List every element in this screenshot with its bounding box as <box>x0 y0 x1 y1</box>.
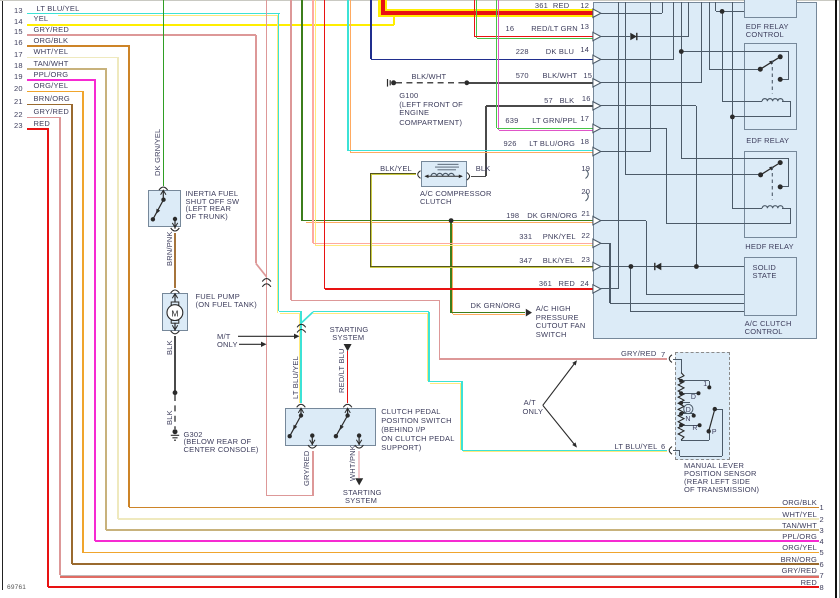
rotated label BRN/PNK <box>165 231 174 266</box>
wire 13 double break symbol <box>297 324 306 327</box>
wire 23 RED horizontal bottom <box>48 586 819 588</box>
wire 15 GRY/RED : pin label row <box>14 28 23 36</box>
inner wire: pin 13 row with diode to riser x=688.8 <box>597 36 630 37</box>
wire 16 ORG/BLK horizontal top <box>27 45 130 47</box>
rotated label BLK lower <box>165 410 174 425</box>
ground G302 symbol <box>173 429 178 434</box>
diode on pin 23 row (pointing left) <box>661 266 744 267</box>
wire 20 ORG/YEL horizontal top <box>27 91 84 93</box>
wire DK GRN/YEL vertical from top x=163.3 <box>163 0 165 186</box>
label HEDF RELAY <box>745 243 794 251</box>
inner wire: riser x=732.4 to HEDF coil <box>732 2 733 208</box>
inner wire: riser x=715.5 to EDF relay control box <box>715 2 716 11</box>
second GRY/RED vertical from top x=266.6 <box>266 0 268 496</box>
connector pin 18 symbol <box>593 147 601 155</box>
A/C clutch double arrow <box>426 175 462 177</box>
label STARTING SYSTEM upper <box>330 326 369 334</box>
wire 13 riser down to clutch pedal switch <box>299 314 300 403</box>
wire 18 TAN/WHT horizontal bottom <box>106 529 818 531</box>
inner wire: riser x=625.3 to HEDF common <box>625 2 626 175</box>
wire 21 BRN/ORG : pin label row <box>14 98 23 106</box>
inner wire: pin 16 drop to pin 23 row x=696.4 <box>597 105 696 106</box>
BLK/YEL vertical x=370.4 <box>370 174 371 267</box>
wire 18 TAN/WHT vertical left side <box>105 69 107 530</box>
diode on pin 13 row (pointing right) <box>637 36 689 37</box>
wire 17 WHT/YEL horizontal top <box>27 57 119 59</box>
arrowhead to A/C high pressure cutout fan switch <box>526 309 532 317</box>
connector pin 22 symbol <box>593 239 601 247</box>
solid state box <box>744 257 797 316</box>
MLPS position letters <box>703 381 707 388</box>
EDF relay box <box>744 43 797 130</box>
label 331 PNK/YEL pin 22 <box>519 233 532 241</box>
circuit 198 DK GRN/ORG vertical from top x=302 <box>301 0 303 221</box>
label STARTING SYSTEM lower <box>343 489 382 497</box>
ground G100 symbol <box>387 79 389 87</box>
HEDF coil return loop <box>782 208 790 209</box>
bottom right label PPL/ORG pin 4 <box>782 533 817 541</box>
svg-text:M: M <box>171 308 178 318</box>
connector pin 20 arrow <box>581 188 590 196</box>
label 639 LT GRN/PPL pin 17 <box>505 117 518 125</box>
inner wire: pin 22 to solid state <box>597 243 610 244</box>
inner wire: pin 24 riser x=618.6 <box>597 288 619 289</box>
wire 13 MLPS branch: drop x=461.9 <box>460 383 461 450</box>
HEDF relay switch contacts and coil <box>758 172 763 177</box>
clutch pedal position switch box <box>285 408 375 446</box>
wire 13 MLPS branch: jog right y=381.5 <box>429 381 463 383</box>
MLPS resistor ladder zigzag <box>678 373 684 441</box>
wire 20 ORG/YEL : pin label row <box>14 85 23 93</box>
label 361 RED pin 12 <box>535 2 548 10</box>
MLPS selector arm <box>713 407 717 411</box>
wire 361? no: circuit 16 RED/LT GRN vertical from top <box>474 0 476 37</box>
circuit 16 RED/LT GRN horizontal to pin 13 <box>475 36 594 38</box>
connector pin 19 symbol <box>586 170 589 179</box>
rotated label WHT/PNK <box>348 445 357 481</box>
wire 22 GRY/RED vertical left side <box>59 117 61 575</box>
label GRY/RED 7 (MLPS) <box>621 350 656 358</box>
rotated label LT BLU/YEL (clutch riser) <box>291 356 300 399</box>
fuel pump box <box>162 293 188 331</box>
wire 22 GRY/RED horizontal bottom <box>60 575 819 577</box>
A/T only arrow to LT BLU/YEL <box>543 405 575 444</box>
inertia switch exit arrow and break <box>174 219 176 229</box>
starting system down arrow <box>344 344 352 351</box>
inertia fuel shut off switch box <box>148 190 181 227</box>
bottom right label RED pin 8 <box>801 579 817 587</box>
DK GRN/ORG branch down to A/C cutout switch <box>450 221 452 313</box>
inertia switch entry arrow <box>162 191 164 200</box>
junction dot on BLK/WHT wire <box>464 80 469 85</box>
GRY/RED horizontal y=300.3 <box>291 300 440 302</box>
rotated label RED/LT BLU <box>337 348 346 393</box>
A/C compressor clutch box <box>421 161 467 187</box>
label G100 <box>399 92 418 100</box>
rotated label BLK upper <box>165 340 174 355</box>
wire 23 RED horizontal top <box>27 128 49 130</box>
diode CR2 on pin 23 row <box>654 263 656 270</box>
wire 22 GRY/RED horizontal top <box>27 117 61 119</box>
wire 23 RED vertical left side <box>47 129 49 587</box>
wire 13 branch to MLPS: horizontal y=312.3 <box>313 311 429 313</box>
break at MLPS pin 6 <box>669 447 672 455</box>
wire 20 ORG/YEL horizontal bottom <box>83 552 818 554</box>
wire BRN/PNK vertical <box>174 233 176 288</box>
inertia switch contacts <box>161 198 165 202</box>
wire 21 BRN/ORG vertical left side <box>71 105 73 564</box>
MLPS taps <box>681 380 709 381</box>
clutch switch output 2 <box>357 433 361 437</box>
EDF coil return loop <box>782 101 790 102</box>
circuit 347 BLK/YEL: from A/C clutch left side <box>370 173 415 174</box>
clutch switch output 1 <box>310 433 314 437</box>
label INERTIA FUEL SHUT OFF SW <box>186 190 239 198</box>
MLPS resistor taps <box>679 379 683 383</box>
label A/C CLUTCH CONTROL <box>745 320 792 328</box>
GRY/RED riser to clutch switch <box>312 451 314 496</box>
wire 13 MLPS branch: drop x=428.8 <box>427 313 428 381</box>
BLK/YEL horizontal to pin 23 <box>370 266 593 267</box>
connector pin 19 arrow <box>581 165 590 173</box>
wire 22 GRY/RED : pin label row <box>14 111 23 119</box>
bottom right label ORG/BLK pin 1 <box>782 499 817 507</box>
wire 17 WHT/YEL horizontal bottom <box>118 518 819 520</box>
label FUEL PUMP <box>196 293 240 301</box>
rotated label GRY/RED below clutch switch <box>302 451 311 486</box>
label 347 BLK/YEL pin 23 <box>519 257 532 265</box>
circuit 228 DK BLU horizontal to pin 14 <box>371 59 593 61</box>
MLPS pin 7 entry <box>673 359 682 360</box>
wire 13 LT BLU/YEL horizontal <box>27 13 280 15</box>
label MANUAL LEVER POSITION SENSOR <box>684 462 744 470</box>
M/T only arrow lower <box>239 343 261 345</box>
label CLUTCH PEDAL POSITION SWITCH <box>381 408 441 416</box>
junction dots on pin 23 row <box>629 264 634 269</box>
circuit 639 LT GRN/PPL horizontal to pin 17 <box>497 128 594 130</box>
inner wire: riser x=709.3 to EDF common <box>709 2 710 69</box>
wire 13 LT BLU/YEL vertical drop x=278.5 <box>277 15 278 313</box>
breaks above clutch switch <box>297 404 306 407</box>
wire 14 YEL horizontal <box>27 24 394 26</box>
junction dot on 198 DK GRN/ORG row <box>449 218 454 223</box>
wire 18 TAN/WHT : pin label row <box>14 62 23 70</box>
label 57 BLK pin 16 <box>544 97 553 105</box>
wire 21 BRN/ORG horizontal top <box>27 104 73 106</box>
DK GRN/ORG branch right to arrow <box>451 312 525 314</box>
label M/T ONLY <box>217 333 231 341</box>
label SOLID STATE <box>753 264 777 272</box>
fuel pump entry arrow <box>174 294 176 302</box>
label LT BLU/YEL 6 (MLPS) <box>615 443 658 451</box>
GRY/RED bottom horizontal to clutch switch <box>267 495 313 497</box>
manual lever position sensor dashed box <box>675 352 730 460</box>
MLPS circled D contact <box>684 404 693 413</box>
fusible link 361 RED thick wire (yellow jacket, red core) <box>378 0 386 17</box>
bottom right label TAN/WHT pin 3 <box>782 522 817 530</box>
GRY/RED horizontal to MLPS pin 7 <box>439 358 667 360</box>
wire 16 ORG/BLK : pin label row <box>14 39 23 47</box>
break above fuel pump <box>171 290 180 293</box>
label BLK/YEL at A/C clutch <box>380 165 412 173</box>
page right border <box>835 0 837 598</box>
connector pin 16 symbol <box>593 102 601 110</box>
A/C clutch coil <box>431 173 454 176</box>
label 198 DK GRN/ORG pin 21 <box>506 212 519 220</box>
circuit 57 BLK: from A/C clutch right, up and to pin 16 <box>471 176 486 178</box>
wire 13 LT BLU/YEL : pin label row <box>14 7 23 15</box>
label A/T ONLY <box>524 399 536 407</box>
inner wire: riser x=681.3 EDF/HEDF upper contacts <box>681 2 682 158</box>
label G302 <box>184 431 203 439</box>
inner wire: pin 14 riser x=673.8 <box>597 59 674 60</box>
wire 14 YEL : pin label row <box>14 18 23 26</box>
circuit 331 PNK/YEL vertical from top x=313.2 <box>312 0 314 243</box>
connector pin 23 symbol <box>593 262 601 270</box>
inner wire: pin 17 drop x=666.8 to HEDF coil return <box>597 128 667 129</box>
inner wire: pin 21 to solid state <box>597 220 646 221</box>
wire WHT/PNK below clutch switch <box>358 451 360 478</box>
connector pin 20 symbol <box>586 192 589 201</box>
EDF relay control box (top, cut off) <box>744 0 797 18</box>
fuel pump exit arrow and break <box>174 323 176 331</box>
clutch switch pole 2 <box>347 409 349 416</box>
inner wire: pin 12 riser x=662.3 <box>597 13 662 14</box>
circuit 228 DK BLU vertical from top <box>370 0 372 59</box>
bottom right label GRY/RED pin 7 <box>782 567 817 575</box>
rotated label DK GRN/YEL <box>153 129 162 176</box>
circuit 361 RED horizontal to pin 24 <box>325 288 594 290</box>
wire 14 YEL riser up to fusible link <box>393 11 395 25</box>
wire GRY/RED diagonal merge and double break <box>256 263 267 277</box>
PCM / control module box (right) <box>593 2 817 340</box>
label 570 BLK/WHT pin 15 <box>516 72 529 80</box>
connector pin 17 symbol <box>593 124 601 132</box>
starting system down arrow lower <box>355 478 363 485</box>
circuit 198 DK GRN/ORG horizontal to pin 21 <box>302 220 594 222</box>
wire 15 GRY/RED horizontal <box>27 34 256 36</box>
wire 21 BRN/ORG horizontal bottom <box>72 563 819 565</box>
connector pin 21 symbol <box>593 216 601 224</box>
circuit 926 LT BLU/ORG horizontal to pin 18 <box>348 150 594 152</box>
diode CR1 on pin 13 row <box>630 33 637 40</box>
circuit 926 LT BLU/ORG vertical from top <box>347 0 349 151</box>
wire RED/LT BLU vertical to clutch switch <box>347 351 349 403</box>
wire 17 WHT/YEL : pin label row <box>14 51 23 59</box>
wire 19 PPL/ORG horizontal top <box>27 79 96 81</box>
HEDF relay box <box>744 151 797 238</box>
page left border <box>2 0 3 590</box>
wire GRY/RED vertical from top x=290.9 <box>290 0 292 300</box>
bottom right label ORG/YEL pin 5 <box>782 544 817 552</box>
connector pin 12 symbol <box>593 9 601 17</box>
EDF relay switch contacts and coil <box>758 67 763 72</box>
svg-text:D: D <box>686 407 691 414</box>
GRY/RED drop x=439.4 <box>439 300 441 359</box>
wire 17 WHT/YEL vertical left side <box>117 57 119 519</box>
MLPS pin 6 wiring <box>673 450 680 451</box>
wire 18 TAN/WHT horizontal top <box>27 68 107 70</box>
label 16 RED/LT GRN pin 13 <box>506 25 515 33</box>
label DK GRN/ORG branch <box>471 302 521 310</box>
label A/C HIGH PRESSURE CUTOUT FAN SWITCH <box>536 305 571 313</box>
inner wire: pin 18 riser x=650.7 <box>597 151 651 152</box>
wire 13 MLPS branch: horizontal to MLPS pin 6 <box>462 450 667 452</box>
break at MLPS pin 7 <box>669 355 672 363</box>
page top border <box>0 0 840 1</box>
label 926 LT BLU/ORG pin 18 <box>504 140 517 148</box>
wire 16 ORG/BLK vertical left side <box>128 46 130 507</box>
A/C clutch plates <box>438 163 459 165</box>
connector pin 24 symbol <box>593 285 601 293</box>
label BLK at A/C clutch <box>476 165 491 173</box>
junction dot on BLK wire <box>173 390 178 395</box>
inner wire: x=722.1 down to EDF coil <box>722 11 723 101</box>
diagram number 69761 <box>7 585 26 592</box>
wire 15 GRY/RED vertical x=256.8 <box>255 35 257 263</box>
wire BLK below fuel pump <box>174 336 176 393</box>
MLPS circled D <box>681 413 694 414</box>
A/T only arrow to GRY/RED <box>543 364 575 406</box>
label EDF RELAY <box>746 137 789 145</box>
wire 13 jog to clutch-switch riser <box>279 311 302 313</box>
clutch switch pole 1 <box>300 409 302 416</box>
bottom right label WHT/YEL pin 2 <box>782 511 817 519</box>
MLPS resistor bottom return <box>681 440 709 441</box>
inner wire: pin 23 branch down to solid state bottom <box>630 267 631 312</box>
M/T only arrow upper <box>238 335 294 337</box>
BLK dashed segment to G302 <box>174 395 176 429</box>
circuit 570 BLK/WHT solid to pin 15 <box>469 82 594 84</box>
wire 19 PPL/ORG : pin label row <box>14 73 23 81</box>
inner wire: pin 23 row to solid state with diode <box>597 266 655 267</box>
circuit 361 RED vertical from top x=324.6 <box>324 0 326 289</box>
label 361 RED pin 24 <box>539 280 552 288</box>
breaks at A/C clutch sides <box>418 171 421 179</box>
label A/C COMPRESSOR CLUTCH <box>420 190 492 198</box>
fuel pump motor M symbol <box>171 302 179 305</box>
break above inertia switch <box>159 187 168 190</box>
label BLK/WHT at G100 <box>412 73 447 81</box>
wire 20 ORG/YEL vertical left side <box>82 92 84 553</box>
connector pin 15 symbol <box>593 79 601 87</box>
wire 19 PPL/ORG vertical left side <box>94 80 96 541</box>
circuit 331 PNK/YEL horizontal to pin 22 <box>313 243 593 245</box>
circuit 639 LT GRN/PPL vertical from top <box>496 0 498 128</box>
bottom right label BRN/ORG pin 6 <box>781 556 817 564</box>
wire 16 ORG/BLK horizontal bottom <box>129 507 819 509</box>
connector pin 14 symbol <box>593 55 601 63</box>
wire 23 RED : pin label row <box>14 122 23 130</box>
inner wire: pin 15 riser x=701.2 <box>597 82 701 83</box>
label EDF RELAY CONTROL <box>746 23 789 31</box>
connector pin 13 symbol <box>593 32 601 40</box>
wire 19 PPL/ORG horizontal bottom <box>95 540 819 542</box>
label 228 DK BLU pin 14 <box>516 48 529 56</box>
